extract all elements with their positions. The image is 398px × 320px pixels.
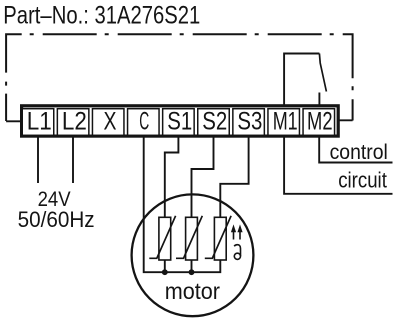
svg-text:L1: L1 [27, 108, 52, 136]
svg-text:L2: L2 [62, 108, 87, 136]
svg-text:S3: S3 [237, 108, 262, 136]
svg-text:control: control [330, 141, 388, 164]
svg-text:S1: S1 [167, 108, 192, 136]
svg-text:motor: motor [165, 278, 221, 304]
svg-text:C: C [139, 108, 149, 136]
svg-text:M2: M2 [307, 108, 333, 136]
svg-text:50/60Hz: 50/60Hz [18, 207, 95, 232]
svg-text:Part–No.: 31A276S21: Part–No.: 31A276S21 [3, 2, 200, 29]
svg-text:X: X [104, 108, 117, 136]
svg-text:S2: S2 [202, 108, 227, 136]
svg-text:M1: M1 [273, 108, 298, 136]
svg-text:circuit: circuit [338, 168, 387, 193]
